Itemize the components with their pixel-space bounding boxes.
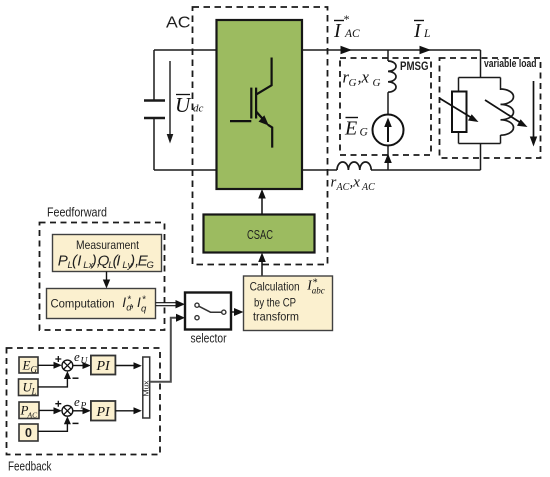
- svg-text:G: G: [360, 127, 369, 139]
- wire ac output top: [302, 49, 481, 51]
- Computation block: [47, 289, 156, 319]
- arrow head I_L: [420, 46, 432, 54]
- svg-text:,x: ,x: [350, 175, 361, 191]
- svg-text:q: q: [141, 304, 147, 315]
- label PL(ILx),QL(ILy),EG: [58, 253, 154, 272]
- Calculation block: [244, 276, 333, 331]
- plus sign: [55, 401, 61, 407]
- arrow load current: [533, 81, 535, 140]
- wire load feed: [459, 50, 501, 170]
- wire sum2 to PI2: [73, 410, 85, 412]
- IGBT symbol: [230, 58, 272, 148]
- svg-text:I: I: [116, 253, 120, 270]
- wire selector to calculation: [231, 311, 238, 313]
- svg-text:I: I: [77, 253, 81, 270]
- svg-text:AC: AC: [361, 182, 375, 193]
- svg-text:E: E: [22, 358, 31, 373]
- sum junction 1: [62, 360, 73, 371]
- wire below EG: [387, 146, 389, 171]
- arrow Udc: [169, 61, 171, 137]
- wire CSAC to converter: [261, 194, 263, 215]
- svg-text:E: E: [344, 118, 357, 140]
- selector block: [185, 293, 231, 330]
- svg-text:variable load: variable load: [484, 58, 537, 70]
- svg-text:abc: abc: [312, 286, 325, 296]
- svg-text:AC: AC: [27, 411, 39, 420]
- wire zero to sum2: [38, 421, 67, 432]
- PMSG dashed box: [340, 58, 431, 155]
- arrow head I_AC: [341, 46, 353, 54]
- bus computation to selector: [156, 303, 179, 306]
- PI block 1: [91, 356, 116, 375]
- wire: [387, 92, 389, 114]
- switch symbol: [199, 306, 222, 312]
- arrow resistor variable: [440, 99, 472, 119]
- svg-text:G: G: [373, 77, 381, 89]
- minus sign: [73, 422, 79, 424]
- svg-text:Mux: Mux: [141, 380, 150, 396]
- svg-text:AC: AC: [336, 182, 350, 193]
- svg-text:L: L: [31, 387, 37, 397]
- PI block 2: [91, 401, 116, 421]
- sum junction 2: [62, 405, 73, 416]
- wire EG to sum1: [38, 364, 57, 366]
- converter block U1: [217, 20, 303, 189]
- svg-text:Computation: Computation: [51, 297, 115, 311]
- svg-text:dc: dc: [193, 103, 204, 115]
- svg-text:G: G: [31, 365, 38, 375]
- svg-text:*: *: [343, 12, 349, 26]
- wire PI1 to Mux: [115, 365, 136, 367]
- svg-text:PMSG: PMSG: [400, 61, 429, 73]
- svg-text:AC: AC: [344, 28, 360, 40]
- UL block: [19, 379, 39, 396]
- Feedforward dashed box: [40, 223, 165, 331]
- svg-text:Measurament: Measurament: [76, 238, 140, 252]
- svg-text:U: U: [175, 93, 192, 117]
- svg-text:G: G: [147, 260, 154, 271]
- wire measurament to computation: [106, 272, 108, 284]
- svg-text:I: I: [413, 20, 422, 42]
- minus sign: [73, 377, 79, 379]
- wire calc to CSAC: [261, 258, 263, 276]
- svg-text:I: I: [333, 20, 342, 42]
- wire generator branch: [387, 50, 389, 61]
- svg-text:,x: ,x: [358, 68, 370, 87]
- PAC block: [19, 402, 39, 419]
- Mux block: [143, 357, 150, 418]
- wire PAC to sum2: [39, 409, 57, 411]
- svg-text:AC: AC: [166, 15, 191, 32]
- svg-text:CSAC: CSAC: [247, 228, 273, 242]
- svg-text:Feedback: Feedback: [8, 460, 52, 474]
- wire sum1 to PI1: [73, 365, 85, 367]
- svg-text:Feedforward: Feedforward: [47, 206, 107, 220]
- EG block: [19, 357, 38, 373]
- wire ac return bottom: [302, 169, 481, 171]
- svg-text:G: G: [349, 77, 357, 89]
- wire PI2 to Mux: [115, 410, 136, 412]
- svg-text:0: 0: [25, 426, 32, 440]
- resistor load: [458, 78, 460, 144]
- svg-text:transform: transform: [253, 310, 299, 324]
- Feedback dashed box: [7, 348, 161, 455]
- svg-text:selector: selector: [191, 332, 227, 346]
- wire top dc link: [154, 50, 217, 170]
- variable load dashed box: [440, 58, 541, 158]
- svg-text:P: P: [58, 253, 68, 270]
- wire UL to sum1: [38, 376, 67, 387]
- CSAC block: [204, 215, 315, 253]
- arrow inductor variable: [485, 100, 521, 123]
- svg-text:e: e: [74, 349, 80, 364]
- source EG: [373, 115, 404, 146]
- svg-text:,: ,: [131, 295, 135, 310]
- inductor xAC: [337, 162, 371, 170]
- svg-text:PI: PI: [96, 359, 112, 374]
- AC dashed box: [193, 7, 328, 265]
- Measurament block: [53, 235, 162, 272]
- svg-text:PI: PI: [96, 405, 112, 420]
- plus sign: [55, 356, 61, 362]
- inductor load: [500, 78, 502, 91]
- capacitor C (dc link): [144, 101, 165, 119]
- svg-text:Calculation: Calculation: [250, 280, 300, 294]
- wire Mux to selector: [150, 318, 179, 382]
- label I*d,I*q: [122, 295, 147, 315]
- svg-text:e: e: [74, 394, 80, 409]
- svg-text:L: L: [423, 28, 430, 40]
- inductor xG: [388, 61, 396, 92]
- svg-text:by the CP: by the CP: [254, 296, 296, 310]
- zero block: [19, 424, 38, 441]
